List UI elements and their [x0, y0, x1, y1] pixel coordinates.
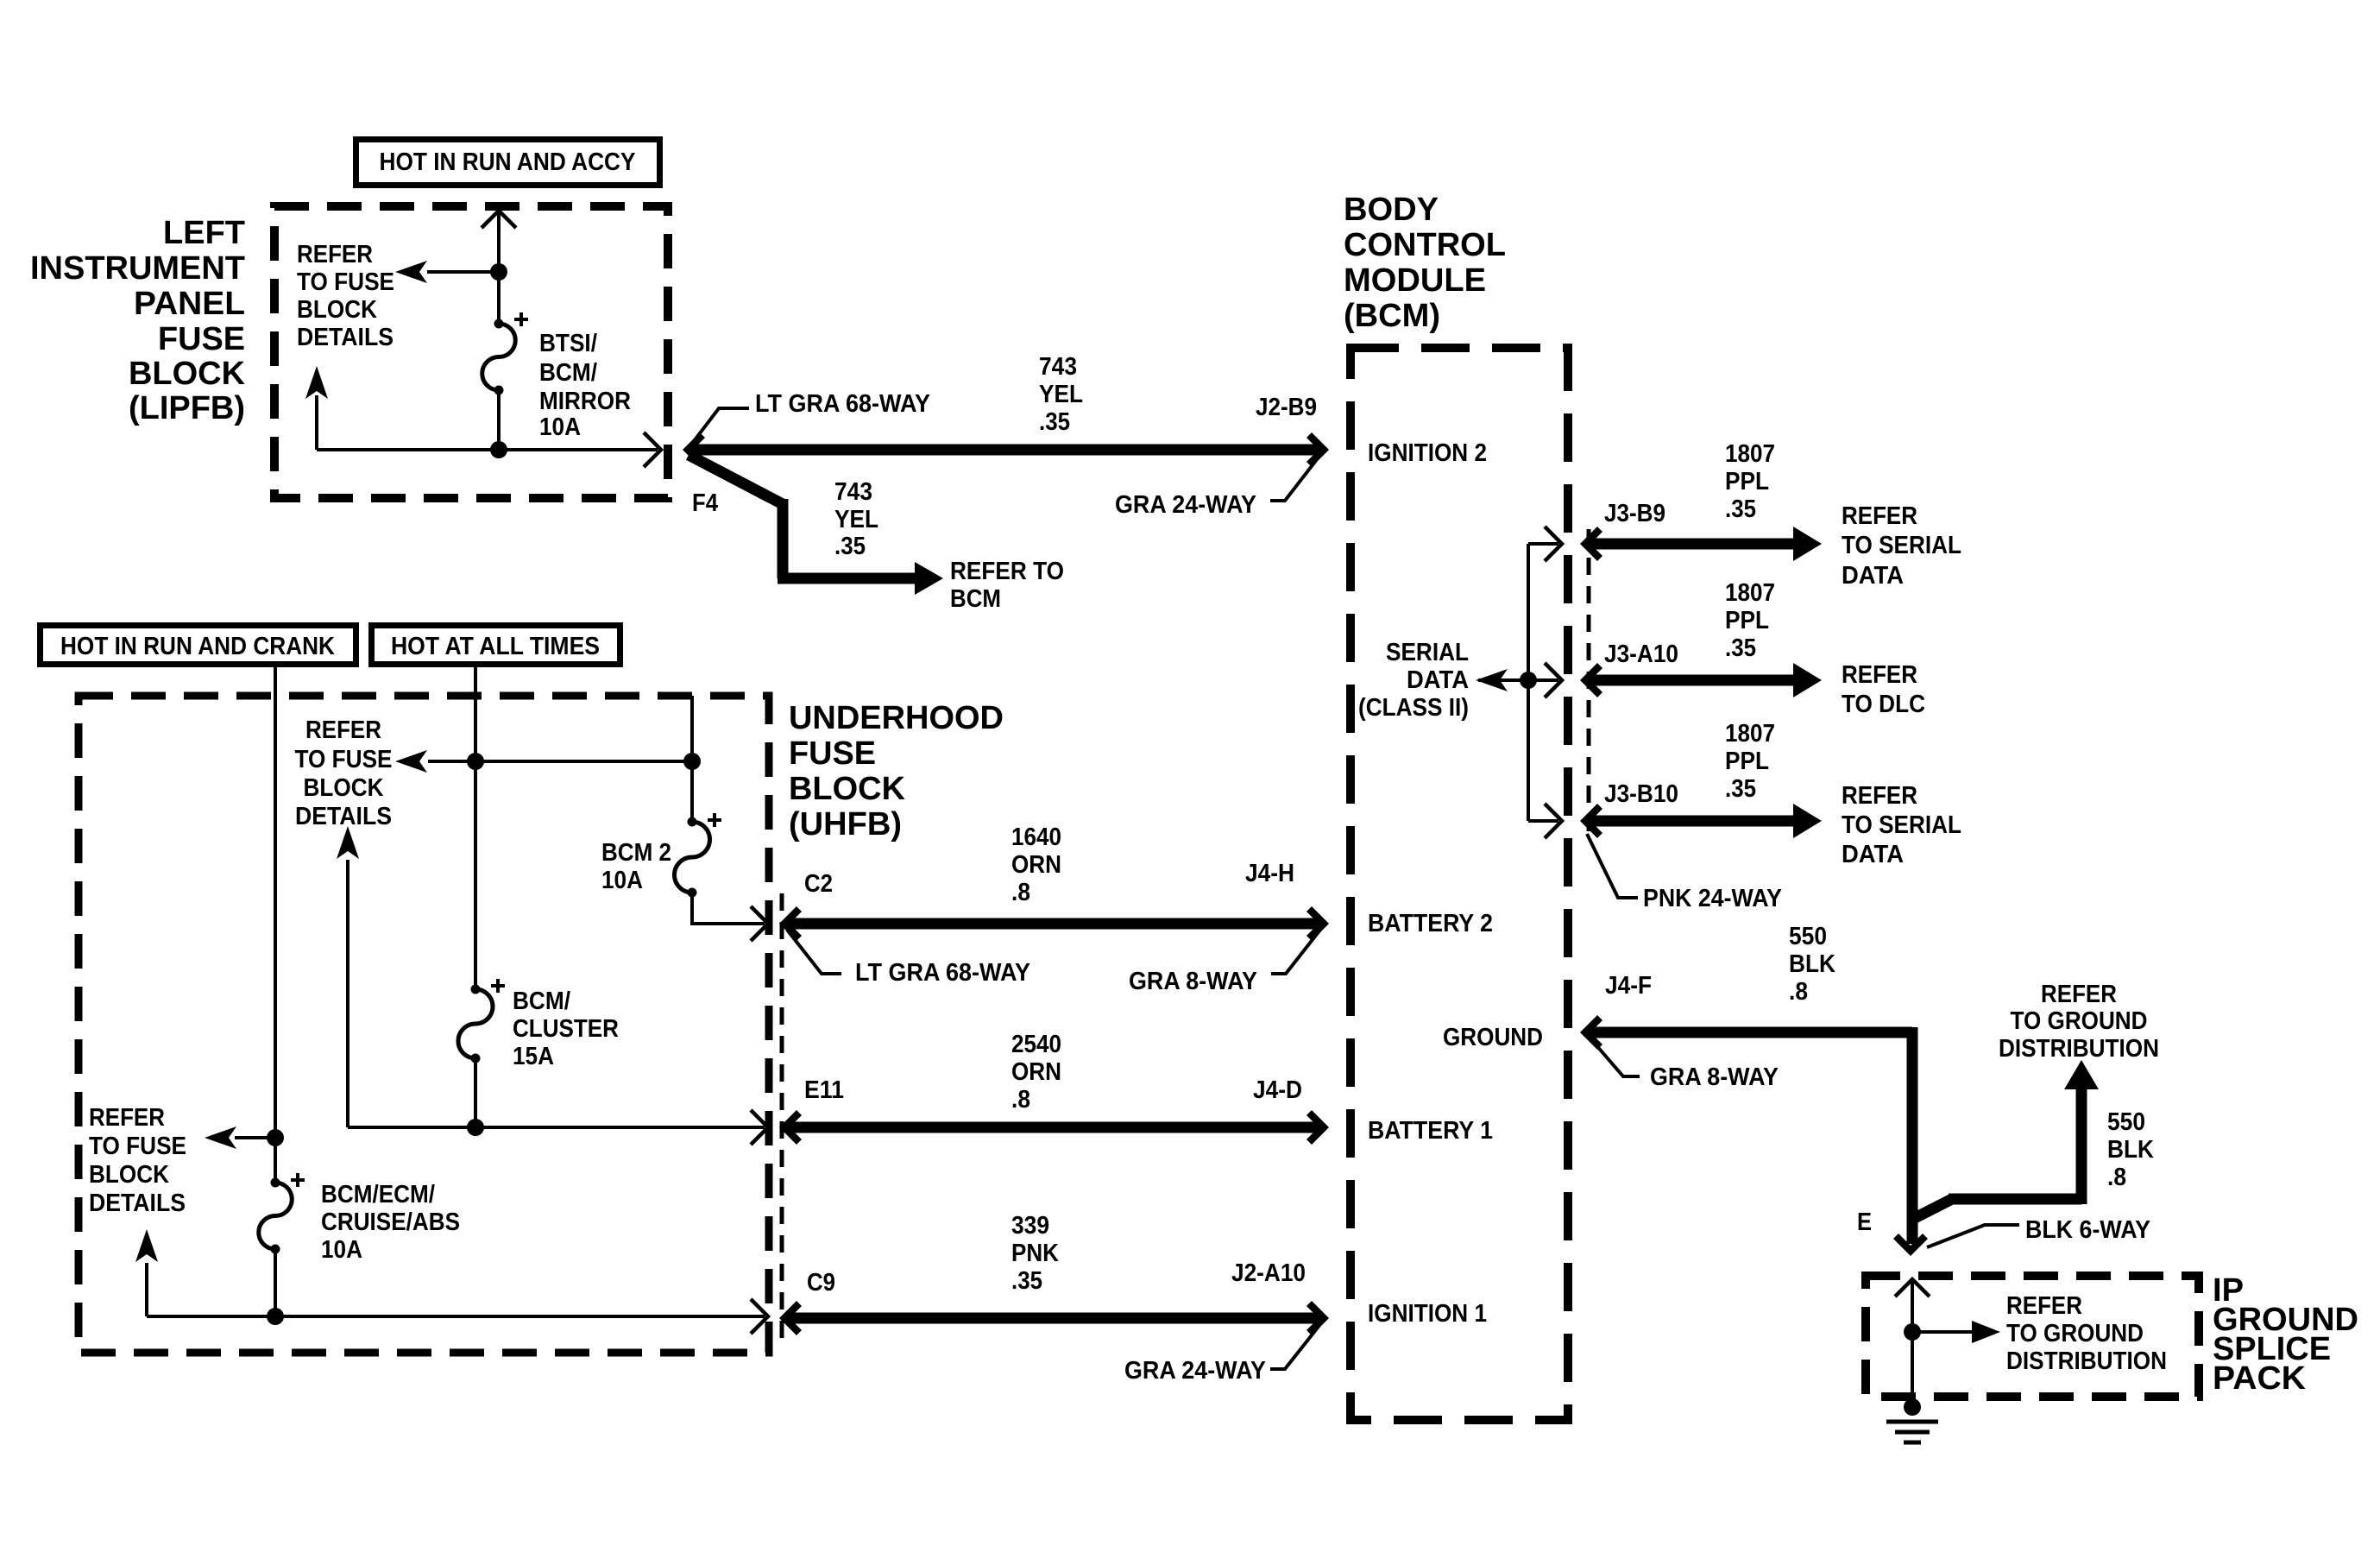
- wire LIPFB left branch up: [315, 395, 318, 450]
- node LIPFB bottom junction: [490, 441, 507, 458]
- arrow refer to ground distribution (right): [1972, 1321, 2000, 1343]
- wire serial branch J3-B10: [1528, 819, 1558, 823]
- arrow up solid LIPFB left: [305, 366, 328, 399]
- label 743 YEL .35 (branch): [834, 478, 878, 560]
- label IP GROUND SPLICE PACK: [2213, 1272, 2358, 1397]
- wire splice vertical: [1911, 1280, 1914, 1399]
- label 1640 ORN .8: [1011, 824, 1061, 906]
- svg-text:TO FUSE: TO FUSE: [295, 746, 393, 773]
- wire serial data vertical bus: [1527, 544, 1530, 821]
- label 743 YEL .35 (main run): [1039, 353, 1083, 436]
- svg-text:LEFT: LEFT: [163, 215, 245, 251]
- svg-text:.35: .35: [834, 533, 866, 560]
- connector pin chevron left (2540 ORN .8): [784, 1113, 799, 1142]
- svg-text:BLOCK: BLOCK: [304, 774, 384, 802]
- connector pin E chevron: [1896, 1236, 1925, 1251]
- module BCM dashed box: [1351, 348, 1568, 1420]
- svg-text:GROUND: GROUND: [1443, 1024, 1543, 1051]
- label REFER TO DLC (J3-A10): [1842, 661, 1925, 718]
- label BCM 2 10A: [601, 839, 671, 894]
- label REFER TO GROUND DISTRIBUTION (splice): [2006, 1292, 2167, 1375]
- svg-text:E: E: [1857, 1208, 1872, 1236]
- svg-text:TO GROUND: TO GROUND: [2011, 1007, 2148, 1035]
- svg-text:(LIPFB): (LIPFB): [129, 390, 245, 426]
- svg-text:339: 339: [1011, 1212, 1049, 1240]
- connector pin J4-D chevron: [1309, 1113, 1324, 1142]
- svg-text:BLK: BLK: [2107, 1136, 2154, 1164]
- svg-text:DETAILS: DETAILS: [297, 324, 394, 351]
- ground G401 symbol: [1886, 1398, 1938, 1442]
- svg-text:LT GRA 68-WAY: LT GRA 68-WAY: [755, 390, 930, 418]
- svg-text:C2: C2: [804, 870, 833, 898]
- svg-text:BCM: BCM: [950, 585, 1001, 613]
- svg-text:BCM/ECM/: BCM/ECM/: [321, 1181, 435, 1208]
- svg-text:10A: 10A: [601, 867, 643, 894]
- svg-text:REFER: REFER: [2041, 981, 2117, 1008]
- svg-text:BLOCK: BLOCK: [297, 296, 377, 324]
- arrow up solid (C9 left): [135, 1229, 158, 1262]
- arrow serial data out (J3-A10): [1793, 663, 1822, 697]
- fuse BTSI/BCM/MIRROR 10A: [482, 312, 528, 395]
- svg-text:REFER: REFER: [1842, 782, 1917, 810]
- svg-text:UNDERHOOD: UNDERHOOD: [789, 700, 1004, 736]
- svg-text:.8: .8: [2107, 1164, 2126, 1191]
- label 1807 PPL .35 (J3-A10): [1725, 579, 1775, 662]
- svg-text:PPL: PPL: [1725, 748, 1769, 775]
- wire 1640 ORN .8: [787, 918, 1320, 930]
- svg-text:REFER: REFER: [1842, 661, 1917, 689]
- fuse block UHFB dashed box: [79, 696, 769, 1353]
- connector pin J3-A10 chevron: [1585, 666, 1600, 695]
- wire 1807 PPL .35 (J3-B9): [1588, 539, 1793, 550]
- arrow open into J3-B9: [1545, 527, 1562, 561]
- svg-text:YEL: YEL: [834, 506, 878, 533]
- wire C9 bus y=1525: [147, 1315, 765, 1318]
- svg-text:.35: .35: [1039, 408, 1070, 436]
- label 339 PNK .35: [1011, 1212, 1059, 1295]
- node junction x802 y882: [683, 753, 701, 770]
- svg-text:GRA 24-WAY: GRA 24-WAY: [1115, 491, 1256, 519]
- wire 1807 PPL .35 (J3-B10): [1588, 816, 1793, 827]
- wire 550 BLK branch vertical: [2076, 1089, 2087, 1204]
- svg-text:743: 743: [834, 478, 872, 506]
- label REFER TO BCM: [950, 558, 1064, 613]
- svg-text:GRA 8-WAY: GRA 8-WAY: [1650, 1063, 1779, 1091]
- svg-text:BCM 2: BCM 2: [601, 839, 671, 867]
- svg-text:ORN: ORN: [1011, 1058, 1061, 1086]
- svg-text:SERIAL: SERIAL: [1386, 639, 1469, 666]
- svg-text:J4-H: J4-H: [1245, 860, 1294, 887]
- arrow refer to BCM: [915, 562, 943, 595]
- svg-text:INSTRUMENT: INSTRUMENT: [30, 250, 245, 287]
- svg-text:REFER TO: REFER TO: [950, 558, 1064, 585]
- svg-text:BLK: BLK: [1789, 950, 1835, 978]
- svg-text:J2-A10: J2-A10: [1231, 1259, 1306, 1287]
- label 550 BLK .8 (J4-F): [1789, 923, 1835, 1006]
- svg-text:CRUISE/ABS: CRUISE/ABS: [321, 1208, 460, 1236]
- fuse block LIPFB dashed box: [274, 206, 668, 498]
- svg-text:GRA 24-WAY: GRA 24-WAY: [1124, 1357, 1266, 1385]
- label 1807 PPL .35 (J3-B9): [1725, 440, 1775, 523]
- svg-text:TO SERIAL: TO SERIAL: [1842, 532, 1961, 559]
- svg-text:.35: .35: [1725, 775, 1756, 803]
- wire refer bus y=882: [428, 760, 692, 763]
- svg-text:J3-A10: J3-A10: [1604, 641, 1678, 668]
- arrow serial data out (J3-B9): [1793, 527, 1822, 561]
- svg-text:IGNITION 1: IGNITION 1: [1368, 1300, 1487, 1328]
- svg-text:(UHFB): (UHFB): [789, 806, 902, 842]
- leader GRA 8-WAY (J4-F): [1590, 1038, 1640, 1076]
- svg-text:PNK: PNK: [1011, 1240, 1059, 1267]
- svg-text:1807: 1807: [1725, 720, 1775, 748]
- wire 1807 PPL .35 (J3-A10): [1588, 675, 1793, 686]
- svg-text:J4-F: J4-F: [1605, 972, 1652, 1000]
- svg-text:MODULE: MODULE: [1344, 262, 1486, 299]
- svg-text:TO FUSE: TO FUSE: [297, 268, 394, 296]
- arrow open exit C9: [751, 1299, 768, 1334]
- arrow up solid (to refer details): [337, 826, 359, 859]
- label REFER TO SERIAL DATA (J3-B9): [1842, 502, 1961, 590]
- label 1807 PPL .35 (J3-B10): [1725, 720, 1775, 803]
- power feed box HOT IN RUN AND ACCY: [356, 140, 660, 186]
- svg-text:HOT AT ALL TIMES: HOT AT ALL TIMES: [391, 633, 600, 660]
- svg-text:BLOCK: BLOCK: [129, 356, 246, 392]
- node splice junction: [1904, 1323, 1921, 1341]
- wire 550 BLK .8 vertical: [1907, 1027, 1918, 1244]
- leader LT GRA 68-WAY (C2): [787, 930, 841, 974]
- svg-text:REFER: REFER: [2006, 1292, 2082, 1320]
- svg-text:DATA: DATA: [1842, 562, 1904, 590]
- svg-text:BLOCK: BLOCK: [789, 771, 906, 807]
- svg-text:DETAILS: DETAILS: [295, 803, 392, 830]
- label BCM/ CLUSTER 15A: [513, 988, 619, 1070]
- wire 339 PNK .35: [787, 1313, 1320, 1324]
- leader PNK 24-WAY: [1587, 834, 1638, 898]
- wire 550 BLK .8 horizontal: [1588, 1027, 1912, 1038]
- leader GRA 8-WAY (J4-H): [1271, 930, 1320, 974]
- label REFER TO FUSE BLOCK DETAILS (UHFB lower): [89, 1104, 186, 1217]
- svg-text:1640: 1640: [1011, 824, 1061, 851]
- svg-text:550: 550: [2107, 1108, 2145, 1136]
- label BCM/ECM/ CRUISE/ABS 10A: [321, 1181, 460, 1264]
- leader GRA 24-WAY (J2-B9): [1270, 455, 1320, 501]
- arrow open into J3-A10: [1545, 663, 1562, 697]
- svg-text:10A: 10A: [321, 1236, 362, 1264]
- node LIPFB upper junction: [490, 263, 507, 281]
- node serial data junction: [1520, 672, 1537, 689]
- wire feed run/crank vertical (x=319): [274, 667, 277, 1183]
- label REFER TO GROUND DISTRIBUTION (upper): [1999, 981, 2159, 1063]
- svg-text:HOT IN RUN AND CRANK: HOT IN RUN AND CRANK: [60, 633, 335, 660]
- connector pin chevron left (339 PNK .35): [784, 1303, 799, 1333]
- wire LIPFB bottom bus: [317, 448, 658, 451]
- svg-text:PNK 24-WAY: PNK 24-WAY: [1643, 885, 1782, 912]
- wire 743 YEL branch diagonal: [689, 455, 783, 504]
- svg-text:PACK: PACK: [2213, 1360, 2307, 1397]
- svg-text:DISTRIBUTION: DISTRIBUTION: [1999, 1035, 2159, 1063]
- svg-text:.35: .35: [1725, 495, 1756, 523]
- svg-text:BCM/: BCM/: [513, 988, 570, 1015]
- svg-text:550: 550: [1789, 923, 1827, 950]
- label REFER TO SERIAL DATA (J3-B10): [1842, 782, 1961, 868]
- wire feed all-times vertical (x=551): [474, 667, 477, 990]
- svg-text:IGNITION 2: IGNITION 2: [1368, 439, 1487, 467]
- wire serial branch J3-B9: [1528, 542, 1558, 546]
- wire 550 BLK branch diagonal: [1913, 1199, 1952, 1219]
- connector face UHFB dashed line: [780, 893, 784, 1348]
- svg-text:J4-D: J4-D: [1253, 1076, 1302, 1104]
- wire 743 YEL branch horizontal: [778, 573, 915, 584]
- wire cluster fuse to E11 bus: [474, 1058, 477, 1127]
- svg-text:REFER: REFER: [89, 1104, 165, 1132]
- wire 743 YEL branch vertical: [778, 499, 789, 578]
- connector pin J4-F chevron: [1585, 1018, 1600, 1047]
- connector pin J4-H chevron: [1309, 909, 1324, 938]
- svg-text:REFER: REFER: [305, 716, 381, 744]
- svg-text:1807: 1807: [1725, 579, 1775, 607]
- node junction x551 y1306: [467, 1119, 484, 1136]
- svg-text:1807: 1807: [1725, 440, 1775, 468]
- connector pin J3-B9 chevron: [1585, 529, 1600, 558]
- svg-text:TO FUSE: TO FUSE: [89, 1133, 186, 1160]
- svg-text:743: 743: [1039, 353, 1077, 381]
- svg-text:BTSI/: BTSI/: [539, 330, 597, 357]
- connector pin J2-A10 chevron: [1309, 1303, 1324, 1333]
- arrow refer to fuse block details (UHFB upper): [395, 750, 427, 773]
- connector pin chevron left (1640 ORN .8): [784, 909, 799, 938]
- label 550 BLK .8 (to ground dist): [2107, 1108, 2154, 1191]
- connector pin J3-B10 chevron: [1585, 806, 1600, 836]
- svg-text:DATA: DATA: [1842, 841, 1904, 868]
- svg-text:BCM/: BCM/: [539, 359, 597, 387]
- svg-text:BODY: BODY: [1344, 192, 1439, 228]
- wire to fuse-block-details arrow: [427, 270, 499, 274]
- svg-text:CONTROL: CONTROL: [1344, 227, 1506, 263]
- wire splice to refer arrow: [1912, 1330, 1973, 1334]
- arrow serial data (left): [1476, 669, 1508, 691]
- label BODY CONTROL MODULE (BCM): [1344, 192, 1506, 334]
- wire refer stub y=1318: [235, 1136, 275, 1139]
- svg-text:PANEL: PANEL: [134, 286, 245, 322]
- label REFER TO FUSE BLOCK DETAILS (LIPFB): [297, 241, 394, 351]
- node junction x551 y882: [467, 753, 484, 770]
- leader BLK 6-WAY: [1927, 1225, 2019, 1247]
- wire up-arrow shaft: [346, 860, 349, 1127]
- splice pack IP dashed box: [1866, 1276, 2199, 1397]
- svg-text:.8: .8: [1789, 978, 1808, 1006]
- svg-text:DATA: DATA: [1407, 666, 1469, 694]
- svg-text:C9: C9: [807, 1269, 835, 1297]
- arrow refer to fuse block details (left): [395, 261, 427, 283]
- svg-text:15A: 15A: [513, 1043, 554, 1070]
- node junction x319 y1525: [267, 1308, 284, 1325]
- power feed box HOT IN RUN AND CRANK: [41, 626, 356, 665]
- fuse BCM/ECM/CRUISE/ABS 10A: [259, 1173, 305, 1254]
- wire fuse3 to C9 bus: [274, 1249, 277, 1316]
- svg-text:DETAILS: DETAILS: [89, 1190, 186, 1217]
- label 2540 ORN .8: [1011, 1031, 1061, 1114]
- wire feed battery vertical (x=802): [690, 696, 694, 823]
- label UNDERHOOD FUSE BLOCK (UHFB): [789, 700, 1004, 842]
- arrow open exit F4: [644, 432, 661, 467]
- fuse BCM 2 10A: [674, 813, 721, 898]
- wire serial branch J3-A10: [1528, 678, 1558, 682]
- svg-text:LT GRA 68-WAY: LT GRA 68-WAY: [855, 959, 1030, 987]
- power feed box HOT AT ALL TIMES: [372, 626, 620, 665]
- wire BCM2 fuse to C2: [692, 893, 765, 924]
- svg-text:E11: E11: [804, 1076, 844, 1104]
- svg-text:.8: .8: [1011, 1086, 1030, 1114]
- svg-text:TO DLC: TO DLC: [1842, 691, 1925, 718]
- label BTSI/ BCM/ MIRROR 10A: [539, 330, 631, 441]
- svg-text:F4: F4: [692, 489, 718, 517]
- svg-text:.8: .8: [1011, 879, 1030, 906]
- leader GRA 24-WAY (J2-A10): [1270, 1324, 1320, 1369]
- svg-text:J2-B9: J2-B9: [1256, 394, 1317, 421]
- svg-text:BATTERY 1: BATTERY 1: [1368, 1117, 1493, 1145]
- connector face PNK 24-WAY dashed line: [1587, 529, 1591, 839]
- label LEFT INSTRUMENT PANEL FUSE BLOCK (LIPFB): [30, 215, 246, 426]
- arrow up open at LIPFB top: [482, 211, 516, 228]
- wire 2540 ORN .8: [787, 1122, 1320, 1133]
- leader LT GRA 68-WAY: [691, 408, 749, 445]
- connector pin F4 chevron: [688, 435, 702, 464]
- pin label SERIAL DATA (CLASS II): [1358, 639, 1469, 722]
- svg-text:2540: 2540: [1011, 1031, 1061, 1058]
- svg-text:FUSE: FUSE: [789, 735, 876, 772]
- svg-text:BATTERY 2: BATTERY 2: [1368, 910, 1493, 937]
- svg-text:GRA 8-WAY: GRA 8-WAY: [1129, 968, 1257, 995]
- svg-text:TO GROUND: TO GROUND: [2006, 1320, 2144, 1347]
- arrow refer to ground distribution (up): [2064, 1060, 2099, 1089]
- svg-text:PPL: PPL: [1725, 468, 1769, 495]
- svg-text:MIRROR: MIRROR: [539, 388, 631, 415]
- wire LIPFB feed vertical: [497, 212, 501, 324]
- wire 743 YEL .35 (F4 to J2-B9): [690, 445, 1320, 456]
- svg-text:PPL: PPL: [1725, 607, 1769, 634]
- svg-text:BLK 6-WAY: BLK 6-WAY: [2025, 1216, 2150, 1244]
- svg-text:(CLASS II): (CLASS II): [1358, 694, 1469, 722]
- svg-text:DISTRIBUTION: DISTRIBUTION: [2006, 1347, 2167, 1375]
- svg-text:HOT IN RUN AND ACCY: HOT IN RUN AND ACCY: [380, 148, 636, 176]
- svg-text:TO SERIAL: TO SERIAL: [1842, 811, 1961, 839]
- svg-text:(BCM): (BCM): [1344, 298, 1440, 334]
- svg-text:.35: .35: [1725, 634, 1756, 662]
- svg-text:ORN: ORN: [1011, 851, 1061, 879]
- label REFER TO FUSE BLOCK DETAILS (UHFB upper): [295, 716, 393, 830]
- connector pin J2-B9 chevron: [1309, 435, 1324, 464]
- fuse BCM/CLUSTER 15A: [458, 979, 505, 1063]
- svg-text:CLUSTER: CLUSTER: [513, 1015, 619, 1043]
- svg-text:YEL: YEL: [1039, 381, 1083, 408]
- wire C9 left branch up: [145, 1263, 148, 1316]
- wire fuse to bottom bus: [497, 390, 501, 450]
- svg-text:10A: 10A: [539, 413, 581, 441]
- wire E11 bus y=1306: [348, 1126, 765, 1129]
- wire serial data stub left: [1478, 678, 1528, 682]
- svg-text:REFER: REFER: [1842, 502, 1917, 530]
- arrow serial data out (J3-B10): [1793, 804, 1822, 838]
- arrow open into J3-B10: [1545, 804, 1562, 838]
- svg-text:J3-B10: J3-B10: [1604, 780, 1678, 808]
- svg-text:FUSE: FUSE: [158, 321, 245, 357]
- arrow open exit E11: [751, 1110, 768, 1145]
- arrow open exit C2: [751, 906, 768, 941]
- svg-text:.35: .35: [1011, 1267, 1042, 1295]
- arrow open splice top: [1895, 1279, 1930, 1297]
- arrow refer to fuse block details (UHFB lower): [205, 1126, 236, 1149]
- node junction x319 y1318: [267, 1129, 284, 1146]
- svg-text:REFER: REFER: [297, 241, 373, 268]
- svg-text:BLOCK: BLOCK: [89, 1161, 169, 1189]
- svg-text:J3-B9: J3-B9: [1604, 500, 1665, 527]
- wire 550 BLK branch horizontal: [1949, 1194, 2081, 1205]
